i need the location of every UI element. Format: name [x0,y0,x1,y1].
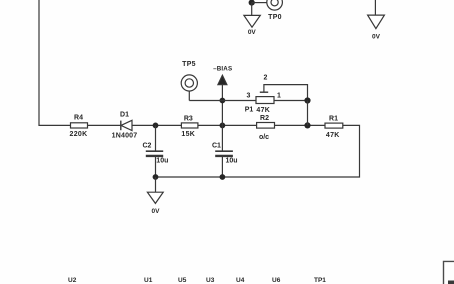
node junction TP5 / P1 pin3 [220,98,226,104]
resistor R3 [181,115,198,138]
wire R2 to R1 [275,124,326,126]
svg-text:0V: 0V [248,29,257,36]
svg-text:10u: 10u [226,157,238,164]
svg-text:47K: 47K [326,132,340,139]
svg-text:U5: U5 [178,277,187,284]
wire R4 to D1 [88,124,122,126]
svg-text:R1: R1 [329,115,338,122]
node junction dot B [304,122,310,128]
ground 0V at top right [368,0,385,41]
node junction dot A [304,97,310,103]
svg-text:D1: D1 [120,112,129,119]
capacitor C1 [212,125,238,177]
svg-text:R3: R3 [184,115,193,122]
svg-text:P1: P1 [245,107,254,114]
svg-text:o/c: o/c [259,134,269,141]
faint cut-off labels at bottom edge [68,277,326,284]
wire D1 to R3 [132,124,181,126]
svg-text:U6: U6 [272,277,281,284]
svg-text:TP0: TP0 [268,14,282,21]
svg-text:1N4007: 1N4007 [112,132,138,139]
test point TP0 [252,0,283,21]
wire R1 right, down, and bottom return [156,125,360,177]
svg-text:R2: R2 [260,115,269,122]
diode D1 1N4007 [112,112,138,140]
svg-text:220K: 220K [70,131,88,138]
resistor R4 [70,115,88,138]
svg-text:0V: 0V [152,208,161,215]
capacitor C2 [143,125,169,177]
svg-text:C1: C1 [212,142,221,149]
test point TP5 [181,61,197,101]
svg-text:10u: 10u [156,157,168,164]
wire TP5 to P1 pin 3 [189,100,256,102]
svg-text:C2: C2 [143,142,152,149]
ground 0V at top left [244,3,260,36]
node junction C1 bottom [220,174,226,180]
svg-text:U1: U1 [144,277,153,284]
partial symbol inside box [448,281,454,284]
wire R3 to R2 [198,124,257,126]
border box bottom right [444,261,454,284]
wire left vertical from top to R4 [39,0,71,125]
wire node A down to node B [307,101,309,126]
resistor R1 [325,115,343,139]
svg-text:U4: U4 [236,277,245,284]
node junction at C2 top [153,123,159,129]
svg-text:–BIAS: –BIAS [213,66,232,73]
node junction top at TP0 [249,0,255,6]
svg-text:TP1: TP1 [314,277,326,284]
node junction main row at C1 top [220,123,226,129]
svg-text:3: 3 [247,93,251,100]
svg-text:47K: 47K [256,107,270,114]
svg-text:U3: U3 [206,277,215,284]
svg-text:TP5: TP5 [182,61,196,68]
power -BIAS arrow [213,66,232,126]
potentiometer P1 47K [245,75,308,115]
svg-text:0V: 0V [372,34,381,41]
svg-text:U2: U2 [68,277,77,284]
svg-text:15K: 15K [181,131,195,138]
svg-text:R4: R4 [74,115,83,122]
node junction C2 bottom [153,174,159,180]
wire P1 pin1 to node A [274,100,308,102]
svg-text:2: 2 [264,75,268,82]
ground 0V under C2 [147,177,163,215]
resistor R2 [257,115,275,141]
svg-text:1: 1 [277,93,281,100]
